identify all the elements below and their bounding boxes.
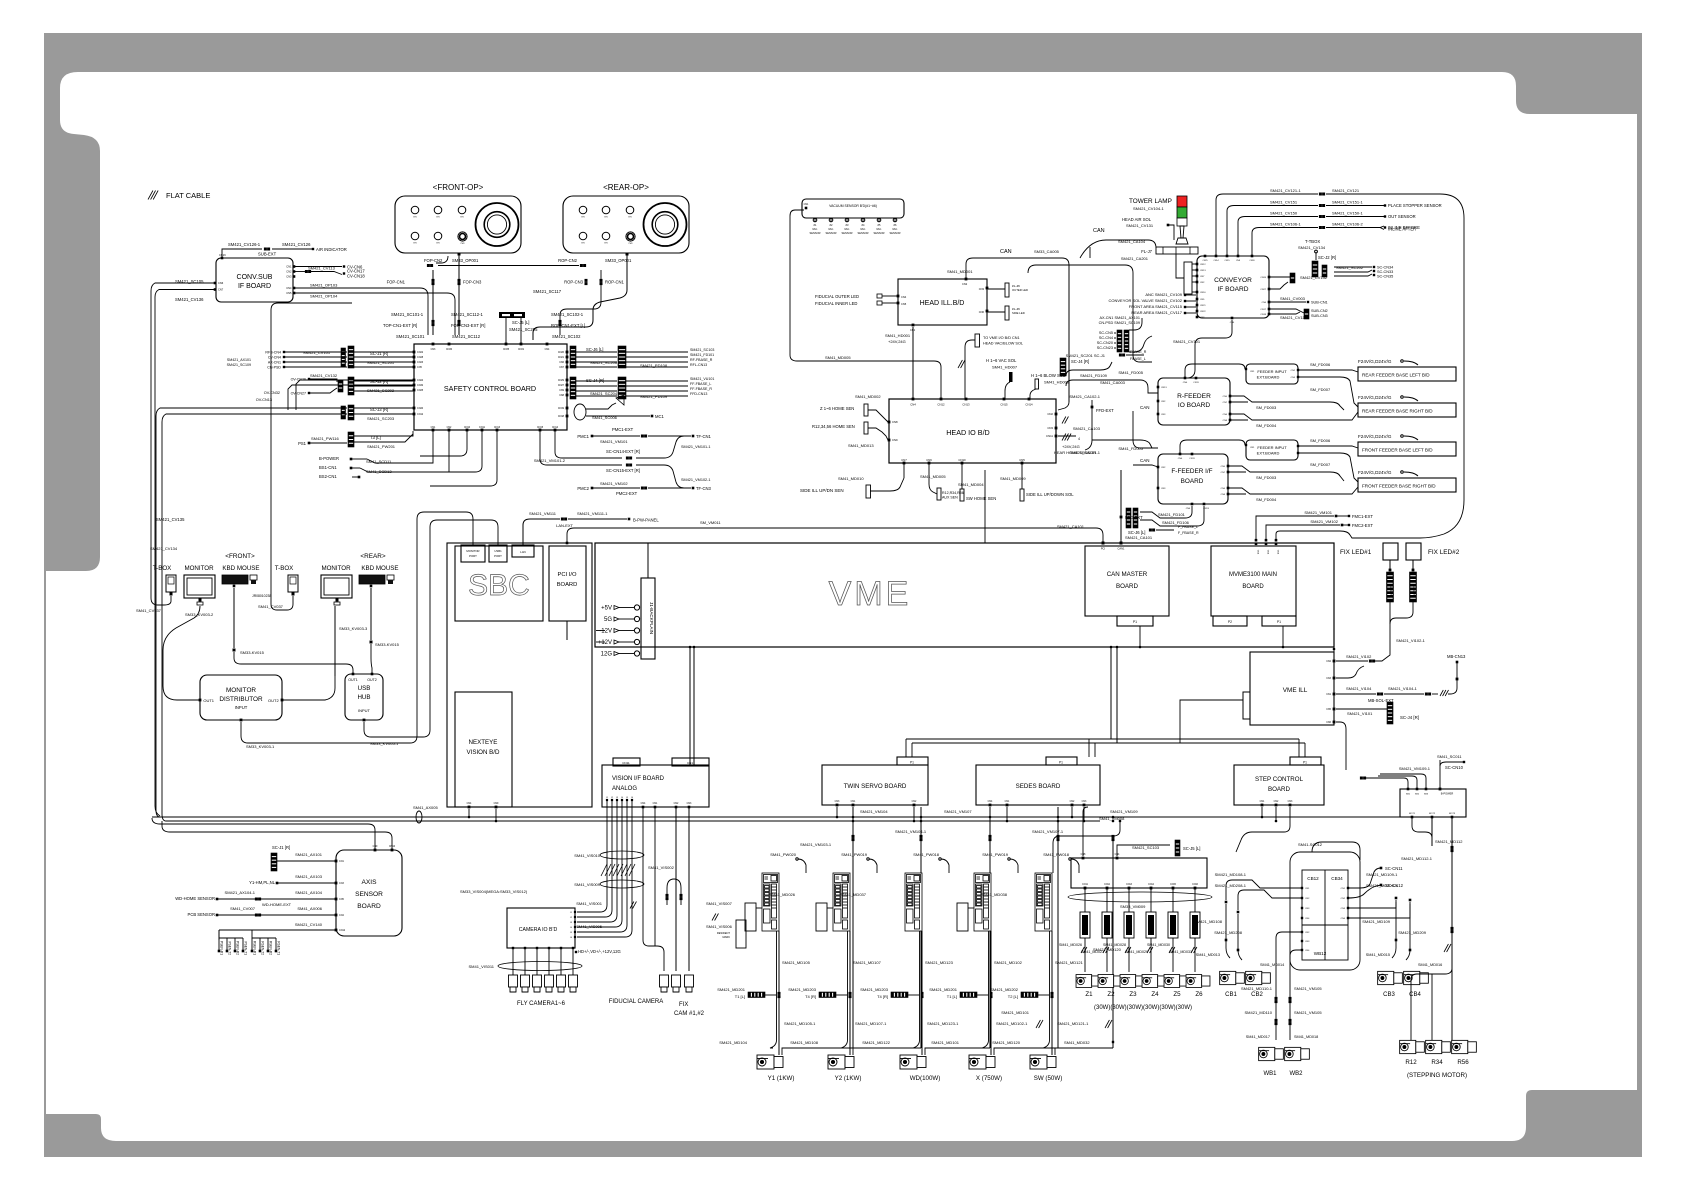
svg-text:AX-CN1: AX-CN1	[268, 361, 281, 365]
svg-text:CN5: CN5	[1326, 708, 1331, 711]
svg-text:BOARD: BOARD	[357, 903, 381, 910]
svg-text:SM421_CV150: SM421_CV150	[1270, 211, 1298, 216]
svg-text:CN23: CN23	[417, 361, 424, 364]
svg-text:LED EXT: LED EXT	[1389, 585, 1393, 596]
svg-text:MVME3100 MAIN: MVME3100 MAIN	[1229, 572, 1277, 578]
svg-text:SM421_VM107: SM421_VM107	[944, 809, 972, 814]
encoder drop wire	[989, 807, 991, 1048]
svg-text:SM421_FD109: SM421_FD109	[1080, 373, 1108, 378]
svg-text:SM33_OP001: SM33_OP001	[452, 258, 479, 263]
svg-text:<FRONT>: <FRONT>	[225, 553, 255, 560]
NEXTEYE wires down to bus	[468, 809, 470, 817]
svg-text:CN1: CN1	[851, 800, 856, 803]
left pin wires of conveyor board	[1184, 262, 1192, 294]
VISION I/F BOARD ANALOG	[602, 765, 709, 807]
WB inline connectors	[1275, 997, 1278, 1000]
front T-BOX icon	[166, 575, 176, 592]
svg-text:SW HOME SEN: SW HOME SEN	[966, 496, 996, 501]
svg-text:WD-HOME-EXT: WD-HOME-EXT	[262, 902, 292, 907]
svg-text:CN2: CN2	[1305, 898, 1310, 900]
svg-text:CN2: CN2	[1291, 370, 1296, 372]
svg-text:SM421_CV101: SM421_CV101	[303, 350, 331, 355]
svg-text:TF-CN3: TF-CN3	[696, 486, 712, 491]
SUB-CN wires right of conveyor	[1270, 301, 1306, 303]
svg-text:CN6: CN6	[1223, 414, 1228, 416]
svg-text:SM421_VM102: SM421_VM102	[600, 481, 628, 486]
svg-text:CN6: CN6	[1326, 721, 1331, 724]
svg-text:CN3: CN3	[1305, 908, 1310, 910]
svg-text:CN18: CN18	[558, 415, 565, 418]
svg-text:CN3: CN3	[1326, 677, 1331, 680]
svg-text:CN20: CN20	[417, 407, 424, 410]
svg-text:ANALOG: ANALOG	[612, 786, 637, 792]
svg-text:-12V: -12V	[599, 629, 612, 635]
left connector group SC-J2	[348, 377, 354, 395]
svg-text:CN25: CN25	[417, 389, 424, 392]
svg-text:CN2: CN2	[1161, 467, 1166, 469]
camera bundle ellipse	[498, 962, 582, 971]
svg-text:CN5: CN5	[1019, 458, 1025, 462]
svg-text:SM421_VM109: SM421_VM109	[1110, 809, 1138, 814]
hatch marks on camera bundle	[601, 864, 607, 876]
svg-text:SUB-CN2: SUB-CN2	[1311, 309, 1328, 313]
svg-text:SM421_SC112: SM421_SC112	[452, 334, 481, 339]
svg-text:CN5: CN5	[417, 366, 422, 369]
svg-text:ANC SM421_CV109: ANC SM421_CV109	[1145, 292, 1182, 297]
svg-text:PSEN-R1: PSEN-R1	[220, 941, 224, 955]
svg-text:CN9: CN9	[892, 438, 898, 442]
svg-text:SM41_MD031: SM41_MD031	[1169, 950, 1192, 954]
svg-text:SM41_AX005: SM41_AX005	[413, 805, 438, 810]
svg-text:CN13: CN13	[1126, 884, 1133, 886]
svg-text:SENSOR: SENSOR	[858, 231, 869, 235]
CAN wire from HEAD ILL CN2	[966, 258, 1069, 410]
driver MOT wires down	[1412, 817, 1432, 838]
svg-text:CN15: CN15	[537, 426, 544, 429]
svg-text:VAC.: VAC.	[828, 227, 834, 231]
small connector stubs at VME top right	[1255, 539, 1258, 542]
svg-text:SM421_VM104-1: SM421_VM104-1	[895, 829, 927, 834]
svg-text:TF-CN1: TF-CN1	[696, 434, 712, 439]
svg-text:CN4: CN4	[467, 802, 472, 805]
rear KBD+MOUSE icon	[359, 575, 385, 584]
svg-text:SM421_CV136: SM421_CV136	[175, 297, 204, 302]
svg-text:CN4: CN4	[1257, 550, 1259, 555]
svg-text:CN3: CN3	[1341, 908, 1346, 910]
svg-text:T4 [R]: T4 [R]	[805, 994, 816, 999]
svg-text:SM421_CA103: SM421_CA103	[1073, 426, 1101, 431]
svg-text:CN31: CN31	[518, 348, 525, 351]
svg-text:SUB-EXT: SUB-EXT	[258, 252, 277, 257]
svg-text:SM41_CV037: SM41_CV037	[136, 608, 162, 613]
svg-text:MB-CN13: MB-CN13	[1447, 654, 1466, 659]
front MONITOR icon	[184, 575, 215, 598]
svg-text:MONITOR: MONITOR	[321, 565, 351, 572]
svg-text:SM_FD006: SM_FD006	[1310, 362, 1331, 367]
F-FEEDER I/F BOARD	[1158, 454, 1228, 504]
svg-text:SM33_KV003-1: SM33_KV003-1	[246, 744, 275, 749]
CN19 oval cable to SM41_SC006	[574, 404, 586, 420]
PCI I/O BOARD	[549, 546, 586, 621]
svg-text:SM_FD006: SM_FD006	[1310, 438, 1331, 443]
svg-text:CN8: CN8	[892, 420, 898, 424]
svg-text:AUX SEN: AUX SEN	[942, 496, 958, 500]
SBC board	[455, 546, 543, 621]
svg-text:FIX: FIX	[679, 1002, 688, 1008]
svg-text:TOWER LAMP: TOWER LAMP	[1129, 198, 1172, 205]
svg-text:CN19: CN19	[558, 407, 565, 410]
svg-text:OUT1: OUT1	[348, 678, 358, 682]
svg-text:SM41_VIS011: SM41_VIS011	[469, 964, 495, 969]
svg-text:CAN: CAN	[1140, 405, 1150, 410]
svg-text:SM421_PW116: SM421_PW116	[311, 436, 339, 441]
svg-text:CN9: CN9	[494, 802, 499, 805]
svg-text:SM421_VM104: SM421_VM104	[860, 809, 888, 814]
servo amplifier column X (750W)	[974, 873, 991, 931]
wires from conveyor top pins to sensor lines	[1216, 194, 1318, 256]
FRONT-OP panel cable FOP-CN2 / SM33_OP001	[458, 253, 461, 256]
svg-text:CN7: CN7	[218, 288, 224, 292]
svg-text:SM421_MD122: SM421_MD122	[862, 1040, 891, 1045]
svg-text:CN11: CN11	[1189, 458, 1195, 460]
CONV.SUB IF BOARD	[216, 258, 293, 302]
svg-text:SM421_SC101-1: SM421_SC101-1	[391, 312, 424, 317]
svg-text:SM421_SC202: SM421_SC202	[1336, 265, 1364, 270]
bus junction dots at VME bottom	[689, 646, 692, 649]
svg-text:WB1: WB1	[1263, 1071, 1277, 1077]
CB12/CB34 distribution box	[1290, 852, 1360, 970]
svg-text:CN6: CN6	[559, 361, 564, 364]
svg-text:SM41_PW019: SM41_PW019	[841, 852, 868, 857]
svg-text:CV-CN4: CV-CN4	[268, 356, 281, 360]
svg-text:SM421_VM111: SM421_VM111	[529, 511, 557, 516]
VME ILL CN6 wire down	[1336, 722, 1346, 770]
svg-text:SM41_MD015: SM41_MD015	[1366, 953, 1390, 957]
svg-text:IF BOARD: IF BOARD	[1217, 286, 1248, 293]
svg-text:CN12: CN12	[1104, 884, 1111, 886]
svg-text:SM421_SC103: SM421_SC103	[1132, 845, 1160, 850]
svg-text:FFD-EXT: FFD-EXT	[1125, 515, 1143, 520]
CAN MASTER BOARD	[1085, 546, 1169, 616]
svg-text:FF-FBASE_L: FF-FBASE_L	[690, 382, 711, 386]
svg-text:CN4: CN4	[1267, 550, 1269, 555]
svg-text:WD(100W): WD(100W)	[910, 1075, 941, 1082]
svg-text:SM33_CA005: SM33_CA005	[1034, 249, 1060, 254]
svg-text:SM421_MD123: SM421_MD123	[925, 960, 954, 965]
svg-text:SM421_CV101: SM421_CV101	[1173, 339, 1201, 344]
svg-text:SM421_MD201: SM421_MD201	[929, 987, 958, 992]
VME box	[595, 543, 1334, 647]
VACUUM SENSOR board	[802, 199, 904, 218]
svg-text:HD+/-,VD+/-,+12V,12G: HD+/-,VD+/-,+12V,12G	[578, 949, 621, 954]
svg-text:CN12: CN12	[339, 929, 346, 932]
wire from PCI board down (NEXTEYE link)	[566, 621, 568, 640]
svg-text:FOP-CN1: FOP-CN1	[387, 280, 406, 285]
Z driver board (6x 30W)	[1071, 858, 1207, 888]
svg-text:SC-CN4: SC-CN4	[1099, 336, 1113, 340]
wires into stepping driver top	[1366, 778, 1408, 789]
svg-text:SM421_CV134: SM421_CV134	[150, 546, 178, 551]
REAR operator panel	[563, 196, 689, 253]
svg-text:MOT3: MOT3	[1449, 813, 1456, 815]
monitor distributor OUT2 wire to rear monitor	[283, 676, 335, 700]
svg-text:CN20: CN20	[1249, 260, 1255, 262]
svg-text:SC-J4 [R]: SC-J4 [R]	[586, 378, 604, 383]
svg-text:PORT: PORT	[494, 554, 502, 558]
wire from REAR OP to front: SM33_OP001 bus	[438, 265, 579, 267]
svg-text:MONITOR: MONITOR	[226, 687, 256, 694]
svg-text:12G: 12G	[601, 652, 613, 658]
regenerative resistor	[957, 903, 968, 931]
svg-text:FIDUCIAL INNER LED: FIDUCIAL INNER LED	[815, 301, 857, 306]
svg-text:SM421_CV131: SM421_CV131	[1126, 223, 1154, 228]
svg-text:F24V/G,D24V/G: F24V/G,D24V/G	[1358, 470, 1392, 475]
svg-text:JR08010238: JR08010238	[252, 594, 271, 598]
svg-text:PSEN-T2: PSEN-T2	[228, 942, 232, 956]
wires above CONV.SUB (SUB-EXT)	[222, 249, 262, 257]
svg-text:P2: P2	[1228, 620, 1232, 624]
svg-text:SM41_VIS005: SM41_VIS005	[576, 924, 603, 929]
svg-text:SM41_HD007: SM41_HD007	[992, 365, 1018, 370]
svg-text:RSEN-T1: RSEN-T1	[277, 941, 281, 955]
svg-text:FEEDER INPUT: FEEDER INPUT	[1257, 369, 1287, 374]
svg-text:CN22: CN22	[1200, 311, 1206, 313]
svg-text:SM421_AX104: SM421_AX104	[295, 890, 323, 895]
svg-text:SM33_KV005-1: SM33_KV005-1	[370, 741, 399, 746]
F-FEEDER right pin wires	[1229, 466, 1344, 481]
svg-text:+12V: +12V	[598, 640, 612, 646]
svg-text:R12: R12	[1405, 1059, 1417, 1066]
svg-text:SM421_PD109: SM421_PD109	[640, 394, 668, 399]
svg-text:SC-CN10: SC-CN10	[1445, 765, 1464, 770]
svg-text:CN1: CN1	[286, 265, 292, 269]
amp output wire to motor	[921, 931, 923, 1055]
svg-text:SW (50W): SW (50W)	[1034, 1075, 1063, 1082]
wire from vacuum CN1 down to HEAD IO	[790, 210, 941, 399]
svg-text:MARK: MARK	[723, 935, 731, 939]
svg-text:P1: P1	[1303, 761, 1307, 765]
svg-text:SM421_MD209: SM421_MD209	[1398, 930, 1427, 935]
servo motor X (750W)	[969, 1055, 995, 1069]
svg-text:CN6: CN6	[218, 281, 224, 285]
bus junction dots	[836, 816, 839, 819]
svg-text:CN8: CN8	[1223, 420, 1228, 422]
VME-to-servo-bus riser pair	[1110, 647, 1112, 739]
svg-text:CN3: CN3	[1200, 317, 1205, 319]
svg-text:SM421_MD102-1: SM421_MD102-1	[996, 1021, 1028, 1026]
amp output wire to motor	[1051, 931, 1053, 1055]
svg-text:SM421_VM105: SM421_VM105	[1294, 986, 1322, 991]
svg-text:F-FEEDER I/F: F-FEEDER I/F	[1171, 468, 1212, 475]
svg-text:SM33_OP001: SM33_OP001	[605, 258, 632, 263]
svg-text:SM421_SC206: SM421_SC206	[590, 360, 618, 365]
svg-text:DISTRIBUTOR: DISTRIBUTOR	[219, 696, 263, 703]
svg-text:VAC.: VAC.	[860, 227, 866, 231]
svg-text:PORT: PORT	[469, 554, 477, 558]
svg-text:SC-CN34: SC-CN34	[1377, 266, 1393, 270]
svg-text:BOARD: BOARD	[557, 582, 578, 588]
svg-text:B-POWER: B-POWER	[1441, 792, 1454, 796]
svg-text:SM41_VIS002: SM41_VIS002	[648, 865, 675, 870]
svg-text:CN7: CN7	[901, 458, 907, 462]
FRONT operator panel	[395, 196, 521, 253]
svg-text:SM41_MD013: SM41_MD013	[848, 443, 874, 448]
svg-text:CN1: CN1	[1250, 371, 1255, 373]
svg-text:EXT.BOARD: EXT.BOARD	[1257, 451, 1280, 456]
svg-text:CN1: CN1	[1341, 888, 1346, 890]
wires from bus down to axis CN9/CN10	[152, 818, 375, 850]
fiducial camera stub wire	[643, 940, 664, 971]
svg-text:USB: USB	[358, 685, 371, 692]
svg-text:FIDUCIAL OUTER LED: FIDUCIAL OUTER LED	[815, 294, 859, 299]
svg-text:SM41_MD002: SM41_MD002	[855, 394, 881, 399]
svg-text:<REAR-OP>: <REAR-OP>	[603, 183, 649, 192]
svg-text:SC-CN35: SC-CN35	[1377, 275, 1393, 279]
svg-text:SC-J5 [L]: SC-J5 [L]	[1183, 846, 1200, 851]
svg-text:SM_FD003: SM_FD003	[1256, 405, 1277, 410]
svg-text:CN4: CN4	[286, 286, 292, 290]
svg-text:SM421_FD101: SM421_FD101	[1158, 512, 1186, 517]
wires from safety bottom pins down-left	[420, 431, 467, 456]
svg-text:CN4: CN4	[1186, 508, 1191, 510]
svg-text:SM_FD007: SM_FD007	[1310, 462, 1331, 467]
svg-text:MC1: MC1	[655, 414, 665, 419]
svg-text:SC-CN14-EXT [R]: SC-CN14-EXT [R]	[606, 449, 640, 454]
svg-text:CONV.SUB: CONV.SUB	[237, 274, 273, 281]
FBASE connectors mid	[1119, 354, 1122, 357]
svg-text:VAC.: VAC.	[876, 227, 882, 231]
svg-text:T4 [R]: T4 [R]	[877, 994, 888, 999]
svg-text:SM421_VM103-1: SM421_VM103-1	[800, 842, 832, 847]
svg-text:PMC2: PMC2	[577, 486, 589, 491]
svg-text:SM421_OP104: SM421_OP104	[310, 294, 338, 299]
right connector group SC-J4	[570, 377, 576, 399]
svg-text:CN6: CN6	[1262, 302, 1267, 304]
svg-text:F24V/G,D24V/G: F24V/G,D24V/G	[1358, 434, 1392, 439]
svg-text:REAR AREA SM421_CV117: REAR AREA SM421_CV117	[1131, 310, 1182, 315]
svg-text:SM421_MD108: SM421_MD108	[790, 1040, 819, 1045]
svg-text:CN16: CN16	[1200, 292, 1206, 294]
svg-text:SM421_SC102-1: SM421_SC102-1	[551, 312, 584, 317]
svg-text:REAR FEEDER BASE RIGHT B/D: REAR FEEDER BASE RIGHT B/D	[1362, 409, 1433, 414]
svg-text:Z5: Z5	[1173, 991, 1181, 998]
conveyor CN26/CN27 wires	[1270, 276, 1290, 278]
svg-text:CN4: CN4	[545, 348, 550, 351]
svg-text:SM421_VM102-1: SM421_VM102-1	[681, 478, 711, 482]
svg-text:CN5: CN5	[1200, 299, 1205, 301]
left wires from CN24/CN32 to OV-CN32 and left loop	[296, 380, 413, 410]
svg-text:VAC.: VAC.	[844, 227, 850, 231]
svg-text:CN2: CN2	[1161, 401, 1166, 403]
vacuum sensor stubs	[813, 218, 817, 222]
svg-text:CN4: CN4	[988, 800, 993, 803]
REAR-OP panel cable ROP-CN2 / SM33_OP001	[533, 253, 627, 340]
svg-text:SM421_MD107: SM421_MD107	[853, 960, 882, 965]
svg-text:KBD MOUSE: KBD MOUSE	[361, 565, 398, 572]
svg-text:SM421_MD201: SM421_MD201	[717, 987, 746, 992]
svg-text:SM33-KV015: SM33-KV015	[375, 642, 400, 647]
svg-text:SM421_CV106-2: SM421_CV106-2	[1332, 222, 1363, 227]
tower lamp base connector FL-J7	[1156, 247, 1198, 254]
resident mark box	[736, 920, 746, 948]
svg-text:BOARD: BOARD	[1116, 583, 1139, 590]
svg-text:SC-J4 [R]: SC-J4 [R]	[1071, 359, 1089, 364]
svg-text:SM_FD004: SM_FD004	[1256, 423, 1277, 428]
svg-text:CN21: CN21	[558, 356, 565, 359]
svg-text:P1: P1	[1133, 620, 1137, 624]
svg-text:SM41_CV003: SM41_CV003	[1280, 296, 1306, 301]
svg-text:SM421_VM101-1: SM421_VM101-1	[681, 445, 711, 449]
svg-text:SM41_SCD13: SM41_SCD13	[366, 469, 392, 474]
svg-text:CV-CN18: CV-CN18	[347, 274, 365, 279]
svg-text:4: 4	[1078, 437, 1080, 441]
svg-text:MOT2: MOT2	[1429, 813, 1436, 815]
USB HUB	[345, 674, 383, 720]
svg-text:<FRONT-OP>: <FRONT-OP>	[433, 183, 484, 192]
servo motor Y2 (1KW)	[828, 1055, 854, 1069]
svg-text:CN4: CN4	[1183, 382, 1188, 384]
svg-text:HEAD AIR SOL: HEAD AIR SOL	[1122, 217, 1152, 222]
svg-text:SC-J2 [R]: SC-J2 [R]	[1318, 255, 1336, 260]
right connector group SC-J6	[570, 346, 576, 368]
SW drop wire	[1112, 836, 1114, 1048]
usb hub input wire	[364, 520, 498, 737]
svg-text:WB2: WB2	[1289, 1071, 1303, 1077]
svg-text:CN16: CN16	[219, 253, 226, 257]
servo amplifier column SW (50W)	[1035, 873, 1052, 931]
svg-text:SM33_KV003-3: SM33_KV003-3	[339, 626, 368, 631]
svg-text:FMC2-EXT: FMC2-EXT	[1352, 523, 1373, 528]
rear T-BOX icon	[288, 575, 298, 592]
svg-text:SENSOR: SENSOR	[842, 231, 853, 235]
camera cable bundle ellipses	[600, 851, 644, 859]
SC-J1 connector left	[271, 853, 277, 871]
svg-text:FF-FBASE_R: FF-FBASE_R	[690, 387, 712, 391]
svg-text:SM41_PW018: SM41_PW018	[1043, 852, 1070, 857]
TO VME stub	[975, 334, 980, 347]
svg-text:CN7: CN7	[559, 366, 564, 369]
svg-text:CN12: CN12	[417, 413, 424, 416]
svg-text:SM41_SC011: SM41_SC011	[1437, 754, 1462, 759]
svg-text:SM421_SC101: SM421_SC101	[396, 334, 425, 339]
svg-text:LAN-EXT: LAN-EXT	[556, 523, 573, 528]
svg-text:CN4: CN4	[641, 802, 646, 805]
svg-text:SM421_MD109: SM421_MD109	[1362, 919, 1391, 924]
svg-text:SM421_VM101-2: SM421_VM101-2	[534, 458, 566, 463]
svg-text:ROP-CN1-EXT [L]: ROP-CN1-EXT [L]	[551, 323, 585, 328]
svg-text:SC-J4 [R]: SC-J4 [R]	[1400, 715, 1419, 720]
T3 connector group with PS1	[348, 432, 354, 447]
HEAD IO B/D board	[889, 399, 1056, 463]
svg-text:SM41_MD026: SM41_MD026	[1059, 943, 1082, 947]
servo motor WD(100W)	[900, 1055, 926, 1069]
svg-text:CN3: CN3	[687, 802, 692, 805]
svg-text:SM421_CV126: SM421_CV126	[282, 242, 311, 247]
svg-text:SM421_SC202: SM421_SC202	[367, 388, 395, 393]
svg-text:PCI I/O: PCI I/O	[557, 572, 576, 578]
svg-text:CN2: CN2	[447, 426, 452, 429]
svg-text:ROP-CN1: ROP-CN1	[605, 280, 625, 285]
Z inline connectors	[1084, 889, 1086, 912]
svg-text:OUT2: OUT2	[268, 698, 279, 703]
svg-text:SM_FD004: SM_FD004	[1256, 497, 1277, 502]
svg-text:CN4: CN4	[910, 403, 916, 407]
svg-text:SM_VM011: SM_VM011	[700, 520, 721, 525]
svg-text:PMC1: PMC1	[577, 434, 589, 439]
svg-text:AIR INDICATOR: AIR INDICATOR	[316, 247, 347, 252]
svg-text:RF-FBASE_R: RF-FBASE_R	[690, 358, 713, 362]
svg-text:CN2: CN2	[1341, 898, 1346, 900]
